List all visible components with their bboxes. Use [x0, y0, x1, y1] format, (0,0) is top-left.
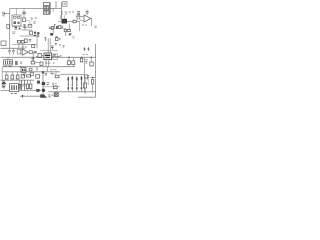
marks (84-89, 46-51) [83, 47, 89, 51]
crossed component (54-58.3, 92.5-97) [54, 93, 58, 97]
wire top stub x56 [55, 1, 57, 8]
marks (55.5,36)-(57.8,39.4) [56, 36, 58, 37]
marks right of R4 [34, 51, 36, 53]
wire y44 [12, 43, 37, 45]
wire bus y74.3 right [60, 73, 84, 75]
box U5 (21-26, 67.6-72.4) [21, 68, 26, 73]
faint marks (72-75, 36-39) [72, 37, 74, 38]
wire top bus [10, 7, 62, 9]
cluster (17-25, 40-46) [17, 40, 24, 48]
marks (51-53, 73-75) [51, 73, 53, 75]
junction dots row y85 [68, 85, 82, 86]
wire Q1 links [12, 27, 25, 30]
wire x53 down + blob [52, 29, 54, 33]
resistor (83.5,83)-(86.5,88) [84, 80, 87, 94]
wire right frame [95, 44, 97, 97]
op-amp U4 (mid-left y49-55) [20, 49, 29, 55]
wire stub x37 between buses [36, 67, 38, 72]
wire y30 [22, 29, 32, 31]
IC U1 (center, dark label) [44, 53, 52, 60]
IC U2 (dark box mid-right) [58, 19, 80, 24]
junction blob (42-44, 71-74) [42, 71, 44, 73]
label text marks (top middle) [31, 18, 38, 20]
components (81-87, 74.5-79.5) [84, 75, 96, 79]
transformer T1 (top middle stack) [44, 3, 54, 15]
components (67-75, 60-65) [67, 57, 74, 66]
dash pair (62-65, 45-48) [62, 46, 64, 47]
dashes (33-36, 21.5-23.5) [33, 22, 36, 23]
vertical caps/resistors (20-31, 84-92) [20, 80, 32, 90]
relay K1 (top box) [63, 1, 67, 6]
component (55.4,37.5)-(58,40.5) [55, 38, 60, 41]
wire row y28.4 [49, 27, 66, 29]
marks below bus near x32 [31, 59, 34, 60]
wire x54.4 stub + tick [54, 24, 56, 28]
marks (23-27, 73-76) [23, 74, 26, 75]
transistor Q1 (below A1) [14, 26, 21, 29]
wire bus y72 [2, 71, 60, 73]
tick (20-22, 62) [20, 62, 22, 63]
resistor R1 (left of frame) [7, 25, 10, 29]
dashes (54.5,43.5) [55, 43, 60, 46]
component row (64-70, y29-33) [64, 29, 72, 36]
wire x43 vertical bottom [42, 72, 44, 96]
resistor R4 (output of U4) [29, 51, 32, 54]
wire bus y80 [1, 79, 35, 81]
resistor horizontal (26.5-30.5, 75) [27, 75, 31, 77]
label under connector [11, 92, 17, 94]
resistor R2 (x28-32 y24.5) [28, 24, 32, 27]
capacitor mark (44.3,37) [44, 37, 46, 41]
diode D1 (x77) [77, 12, 80, 20]
connector J1 (left edge input) [3, 12, 10, 17]
label under K2 [5, 65, 12, 67]
wire y86.8 [43, 86, 60, 88]
wire bottom bus y92 [48, 91, 96, 93]
bottom-right cluster verticals [67, 76, 82, 85]
capacitor C2 (above op-amp) [86, 10, 89, 15]
wire verticals feeding U1 [48, 38, 50, 53]
hatched component (18.5,84.5)-(21,89) [19, 80, 22, 90]
capacitor C4 (x16 y61) [16, 61, 17, 65]
component (29-32, 68-71) [29, 68, 32, 71]
tick on y96 line [22, 95, 24, 97]
wire stubs into A1/C1 from top bus [17, 8, 25, 15]
marks (44-47, 73-76) [45, 74, 47, 75]
component (35.7-40, 74.5-79) [36, 75, 40, 79]
component (40-43, y62) [40, 62, 43, 65]
faint box (51,69.5)-(56,74) [51, 70, 56, 75]
wire junction x33 down [32, 52, 36, 61]
wire main bus y57 [1, 56, 96, 58]
wire left frame [9, 8, 11, 48]
components (24-30, 38.5-43) [24, 39, 31, 42]
wire bus y48 [1, 47, 26, 49]
capacitor C9 (51,45.8) [51, 46, 54, 50]
wire bus y90 left [1, 89, 42, 91]
wire y36 [20, 35, 34, 37]
component (91.5,76.7)-(94,84) [91, 77, 93, 92]
label above U4 [22, 46, 27, 48]
transistor Q5 [42, 89, 45, 92]
wire x24.9 vertical [24, 24, 26, 30]
wire x79.5 long vertical [78, 12, 81, 32]
wire x84.3 vertical [83, 57, 85, 92]
dash (23-26, 24.3) [23, 23, 25, 25]
label (51.7-56.7, 82.5-85) [52, 83, 57, 85]
transistor Q4 [42, 82, 46, 86]
wire left rail lower [1, 67, 3, 88]
faint dashes top-right (94-99, 25-29) [94, 26, 97, 28]
diode row y86-90 [67, 85, 82, 92]
component (80.5,58)-(83,62) hanging [80, 57, 82, 62]
capacitors hanging from bus y48 [8, 48, 21, 54]
wire vertical x61.5 [61, 2, 63, 19]
label dashes (48.8-51.2, 27-29) [49, 27, 51, 29]
faint label (12-16, 31.5-34) [12, 32, 15, 33]
component (53.3,85.8)-(57.3,89) [53, 86, 57, 89]
component (31-35, y61-64) [31, 61, 40, 64]
box (58.4,25.4) [58, 25, 60, 28]
wire bus y67 [2, 66, 75, 68]
wire bus y96 [20, 95, 43, 97]
op-amp U3 (top right) [76, 15, 92, 26]
resistor R10 (51.5,26.4) [52, 26, 54, 29]
ground/transformer left bottom [2, 80, 5, 88]
transistor cluster Q2 (33-40, 31-37) [34, 32, 40, 37]
module box A1 (top-left) [12, 15, 21, 26]
capacitor C1 (x24 top) [22, 12, 25, 21]
wire x37 vertical [36, 34, 38, 48]
wire bottom right bus [78, 96, 96, 98]
capacitor C3 (x25 y26) [23, 26, 26, 27]
relay box K2 (3.5-12.5, y60-65) [4, 57, 13, 65]
component (30-34, 72.4-75.6) [30, 73, 33, 76]
wire stubs x60,x64 y15-20 [60, 15, 64, 20]
junction dot (20.4,66.7) [20, 66, 21, 67]
dashes (59.5-62, 55.5-58.5) [60, 56, 62, 57]
mid-left wiring [12, 24, 37, 48]
box B1 (left, 1-6 y41) [1, 41, 6, 46]
connector box (9.5-18.7, 83.5-91.7) [10, 84, 19, 92]
faint label (82.5,54.5) [83, 54, 88, 56]
dashes (61.3-63.2) [61, 26, 63, 28]
wire x69.7 vertical [69, 24, 71, 31]
component (55-59, 75-78) [55, 75, 59, 78]
junction dot (88, 75.7) [88, 75, 89, 76]
wires around U1 [36, 56, 60, 72]
wire y50.4 [40, 49, 58, 51]
box right of U1 [53, 54, 58, 59]
marks right of U1 [53, 54, 56, 55]
label under op-amp [82, 24, 87, 26]
component below y44 [32, 45, 35, 48]
component (21-24.5, 74.5-78) [21, 75, 24, 78]
dark blob (36-40, 89-92) [36, 89, 39, 92]
capacitor C8 (56.5,26) [56, 26, 57, 29]
speaker symbol bottom middle [40, 94, 53, 97]
resistor R3 (x29.5 y31) [30, 31, 33, 34]
label marks under K1 [61, 12, 75, 14]
marks right of Q4 [47, 83, 50, 85]
marks (85-88, 59-63) [85, 60, 88, 63]
transistor Q3 blob (37-40.5, 80.5-84) [37, 81, 40, 84]
box U1b (left of U1) [38, 54, 42, 58]
label (45-52, y62.5) [45, 62, 54, 64]
junction dots on bus y57 [33, 57, 92, 58]
box (89.8,62)-(93.2,66) [90, 57, 93, 66]
resistors hanging y75-79 left [5, 72, 19, 80]
wire y20.5 + stub x30 [26, 21, 30, 27]
